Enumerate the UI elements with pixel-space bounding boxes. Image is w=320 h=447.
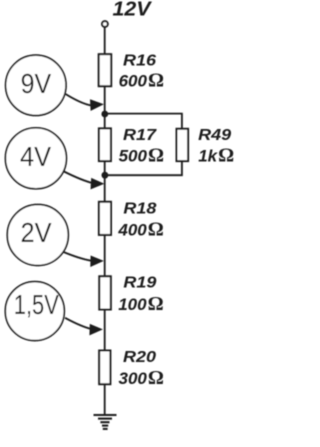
svg-text:2V: 2V <box>21 217 52 248</box>
wire R18 to R19 <box>104 235 106 276</box>
resistor R19 <box>99 276 111 309</box>
arrow 1,5V to node R19/R20 <box>65 318 103 336</box>
svg-text:R49: R49 <box>198 127 231 144</box>
svg-text:R16: R16 <box>123 52 156 69</box>
node junction B (R17/R18/R49) <box>102 172 109 179</box>
svg-text:300Ω: 300Ω <box>119 367 164 389</box>
wire R17 to R18 <box>104 161 106 202</box>
arrow 4V to node B <box>64 172 104 190</box>
node junction A (R16/R17/R49) <box>101 111 108 118</box>
resistor R18 <box>99 202 111 235</box>
resistor R20 <box>99 351 110 385</box>
node circle 4V <box>5 128 66 189</box>
svg-text:400Ω: 400Ω <box>117 219 163 241</box>
svg-text:600Ω: 600Ω <box>119 69 164 91</box>
arrow 9V to node A <box>66 94 104 111</box>
svg-text:R20: R20 <box>123 349 156 366</box>
node 12V terminal <box>102 21 108 27</box>
wire R49 bottom branch <box>105 161 182 175</box>
resistor R49 <box>177 129 189 161</box>
wire terminal to R16 <box>104 27 106 54</box>
node circle 2V <box>7 205 68 266</box>
svg-text:12V: 12V <box>113 0 153 21</box>
resistor R16 <box>99 54 112 86</box>
wire branch to R49 top <box>105 114 182 129</box>
wire R16 to R17 <box>104 86 106 128</box>
svg-text:1,5V: 1,5V <box>14 289 59 320</box>
svg-text:500Ω: 500Ω <box>119 145 164 167</box>
svg-text:R17: R17 <box>123 127 158 144</box>
svg-text:4V: 4V <box>20 141 51 172</box>
svg-text:R18: R18 <box>123 201 156 218</box>
node circle 9V <box>6 55 66 115</box>
svg-text:9V: 9V <box>21 68 52 99</box>
svg-text:R19: R19 <box>123 275 156 292</box>
wire R19 to R20 <box>104 310 106 351</box>
svg-text:1kΩ: 1kΩ <box>198 145 234 167</box>
svg-text:100Ω: 100Ω <box>118 293 163 315</box>
node circle 1,5V <box>5 282 64 341</box>
ground <box>94 415 117 429</box>
resistor R17 <box>99 128 111 161</box>
wire R20 to ground <box>104 384 106 415</box>
arrow 2V to node R18/R19 <box>64 252 104 267</box>
